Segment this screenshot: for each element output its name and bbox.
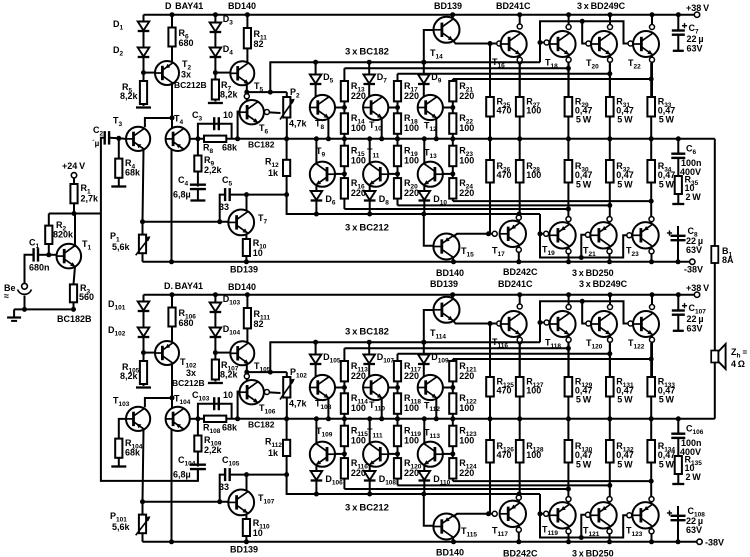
junction driver bus D7 bbox=[367, 60, 372, 65]
resistor R106 bbox=[168, 308, 175, 327]
node emitter line bbox=[140, 219, 145, 224]
pin T22 collector bbox=[650, 25, 655, 30]
wire T107 base line bbox=[143, 501, 229, 503]
resistor R18 bbox=[394, 113, 401, 134]
wire T7 collector bbox=[246, 195, 248, 211]
svg-text:68k: 68k bbox=[125, 448, 141, 458]
node T104 base feed bbox=[170, 395, 175, 400]
wire T21 base riser bbox=[581, 235, 588, 258]
pin T16 base bbox=[497, 41, 502, 46]
resistor R135 bbox=[675, 456, 682, 474]
pin T23 emitter bbox=[649, 217, 654, 222]
pin T16 emitter bbox=[517, 57, 522, 62]
wire R135 bottom bbox=[677, 474, 679, 484]
transistor T107 bbox=[228, 490, 254, 516]
wire R126 column bbox=[489, 419, 491, 514]
wire R111 column bbox=[246, 295, 248, 343]
wire C7 column bbox=[677, 15, 679, 30]
transistor T1 bbox=[57, 244, 82, 269]
diode D2 bbox=[138, 48, 150, 57]
wire R2 bottom bbox=[48, 244, 50, 255]
pin T19 collector bbox=[566, 249, 571, 254]
junction bottom bus D108 bbox=[367, 492, 372, 497]
junction base chain T121 bbox=[579, 535, 584, 540]
junction output line R114 bbox=[342, 416, 347, 421]
wire R35 bottom bbox=[677, 194, 679, 204]
wire R127 column bbox=[519, 343, 521, 419]
wire R13 riser bbox=[343, 68, 345, 113]
ground R105 bbox=[136, 386, 151, 388]
wire T111 base bbox=[388, 453, 397, 455]
transistor T10 bbox=[363, 95, 388, 120]
wire T6 base bbox=[238, 112, 240, 139]
junction R17 R18 bbox=[395, 105, 400, 110]
wire T15 base from bottom bus bbox=[424, 214, 434, 246]
svg-text:470: 470 bbox=[497, 106, 512, 116]
pin T121 collector bbox=[607, 529, 612, 534]
wire T106 emitter to P102 wiper bbox=[269, 391, 280, 394]
junction output line R118 bbox=[395, 416, 400, 421]
svg-text:220: 220 bbox=[351, 188, 366, 198]
wire R25 column bbox=[489, 44, 491, 139]
wire R106 column bbox=[171, 295, 173, 342]
svg-text:100: 100 bbox=[526, 106, 541, 116]
junction ground input bbox=[22, 307, 27, 312]
wire T3 collector line bbox=[145, 118, 172, 127]
transistor T122 bbox=[633, 311, 659, 337]
wire R125 column bbox=[489, 324, 491, 419]
wire +38V top rail bbox=[144, 14, 695, 16]
wire C7 bottom bbox=[677, 35, 679, 51]
pin T117 base bbox=[492, 511, 497, 516]
junction rail T118 bbox=[566, 292, 571, 297]
pin T18 emitter bbox=[566, 57, 571, 62]
resistor R126 bbox=[486, 440, 494, 463]
junction output line R31 bbox=[607, 136, 612, 141]
svg-text:100: 100 bbox=[459, 156, 474, 166]
wire T103 base bbox=[119, 419, 126, 467]
wire T109 emitter to D106 bbox=[315, 465, 317, 471]
terminal input Be bbox=[22, 283, 28, 289]
svg-text:1k: 1k bbox=[268, 448, 279, 458]
transistor T117 bbox=[500, 501, 526, 527]
wire R124 drop bbox=[452, 446, 454, 458]
svg-text:100: 100 bbox=[351, 156, 366, 166]
wire T9 collector riser bbox=[315, 139, 317, 164]
junction driver bus D5 bbox=[313, 60, 318, 65]
svg-text:BD139: BD139 bbox=[230, 545, 258, 555]
wire D103 chain column bbox=[214, 295, 216, 353]
pin T118 emitter bbox=[566, 337, 571, 342]
junction T122 emitter line bbox=[649, 357, 654, 362]
node T105 base bbox=[213, 350, 218, 355]
wire D106 to bottom bus bbox=[315, 481, 317, 495]
transistor T15 bbox=[433, 234, 459, 260]
resistor R114 bbox=[341, 393, 348, 414]
diode D108 bbox=[364, 471, 376, 480]
svg-text:BC182: BC182 bbox=[248, 420, 275, 430]
wire D109 column bbox=[423, 342, 425, 376]
svg-text:5 W: 5 W bbox=[576, 180, 592, 190]
wire T121 collector drop bbox=[609, 526, 611, 542]
potentiometer P102 bbox=[283, 377, 290, 398]
junction T111 base bbox=[395, 451, 400, 456]
capacitor C6 bbox=[671, 152, 685, 154]
diode D104 bbox=[210, 328, 222, 337]
junction R121 R122 bbox=[450, 385, 455, 390]
transistor T103 bbox=[126, 407, 150, 431]
wire R32 column bbox=[609, 139, 611, 219]
svg-text:3 x BD249C: 3 x BD249C bbox=[577, 1, 626, 11]
svg-text:100: 100 bbox=[459, 403, 474, 413]
resistor R15 bbox=[341, 146, 348, 167]
junction bottom bus D6 bbox=[314, 212, 319, 217]
pin T116 base bbox=[497, 321, 502, 326]
svg-text:=: = bbox=[743, 348, 748, 357]
pin T22 emitter bbox=[650, 57, 655, 62]
capacitor C1 bbox=[32, 248, 34, 262]
wire -38V bottom rail bbox=[143, 541, 697, 543]
junction output line T112 emitter bbox=[434, 416, 439, 421]
capacitor C104 bbox=[190, 464, 206, 466]
junction R117 R118 bbox=[395, 385, 400, 390]
wire T13 base bbox=[443, 173, 453, 175]
junction rail R10 bbox=[244, 259, 249, 264]
wire R20 drop bbox=[397, 166, 399, 178]
wire T18 emitter drop bbox=[568, 56, 570, 98]
resistor R110 bbox=[243, 519, 250, 536]
transistor T6 bbox=[240, 100, 264, 124]
wire R121 riser bbox=[452, 359, 454, 394]
diode D101 bbox=[138, 302, 150, 311]
resistor R27 bbox=[516, 97, 524, 117]
pin T20 base bbox=[586, 41, 591, 46]
svg-text:BD241C: BD241C bbox=[498, 279, 533, 289]
wire R113 riser bbox=[343, 348, 345, 393]
wire output rail bbox=[198, 138, 715, 140]
potentiometer P1 bbox=[139, 235, 146, 254]
wire R22 R23 span bbox=[452, 134, 454, 146]
transistor T17 bbox=[500, 221, 526, 247]
wire T18 collector riser bbox=[568, 15, 570, 27]
resistor R118 bbox=[394, 393, 401, 414]
wire R2 column bbox=[48, 214, 50, 226]
pin T119 collector bbox=[566, 529, 571, 534]
pin T120 base bbox=[586, 321, 591, 326]
wire T12 emitter bbox=[435, 119, 437, 139]
junction rail T123 bbox=[649, 539, 654, 544]
capacitor C2 bbox=[103, 131, 105, 145]
wire T113 emitter to D110 bbox=[423, 465, 425, 471]
wire R105 column bbox=[143, 353, 145, 386]
junction bottom bus D8 bbox=[367, 212, 372, 217]
junction rail T20 bbox=[608, 12, 613, 17]
transistor T7 bbox=[228, 210, 254, 236]
pin T121 base bbox=[585, 512, 590, 517]
svg-text:220: 220 bbox=[459, 468, 474, 478]
drive line row2 upper bbox=[453, 480, 651, 482]
pin T17 collector bbox=[516, 247, 521, 252]
potentiometer P2 bbox=[283, 97, 290, 118]
svg-text:0,47: 0,47 bbox=[575, 450, 593, 460]
resistor R4 bbox=[115, 159, 122, 178]
wire R114 R115 span bbox=[343, 414, 345, 426]
wire T10 collector junction bbox=[388, 107, 397, 109]
transistor T21 bbox=[590, 222, 616, 248]
node T1 base bbox=[46, 252, 51, 257]
svg-text:BD242C: BD242C bbox=[503, 549, 538, 557]
pin T123 collector bbox=[649, 529, 654, 534]
junction rail T116 bbox=[517, 292, 522, 297]
terminal +38V bbox=[694, 292, 699, 297]
transistor T12 bbox=[418, 95, 443, 120]
svg-text:63V: 63V bbox=[686, 525, 702, 535]
wire R120 drop bbox=[397, 446, 399, 458]
pin T117 collector bbox=[516, 527, 521, 532]
svg-text:BD140: BD140 bbox=[228, 282, 256, 292]
input jack arc bbox=[18, 290, 32, 295]
wire T1 emitter bbox=[74, 266, 76, 284]
svg-text:-38V: -38V bbox=[705, 538, 724, 548]
resistor R117 bbox=[394, 361, 401, 381]
drive line row1 upper bbox=[344, 347, 568, 349]
potentiometer P101 bbox=[139, 515, 146, 534]
junction output line R27 bbox=[517, 136, 522, 141]
transistor T16 bbox=[501, 31, 527, 57]
transistor T115 bbox=[433, 514, 459, 540]
resistor R6 bbox=[168, 28, 175, 47]
wire to T2 base bbox=[144, 72, 156, 74]
wire C104 to feedback line bbox=[197, 469, 199, 481]
pin T106 emitter bbox=[264, 390, 269, 395]
junction output line R112 bbox=[284, 416, 289, 421]
resistor R24 bbox=[449, 178, 456, 199]
transistor T102 bbox=[155, 341, 179, 365]
svg-text:82: 82 bbox=[254, 319, 264, 329]
svg-text:100: 100 bbox=[404, 403, 419, 413]
capacitor C8 bbox=[671, 235, 686, 237]
wire zobel mid bbox=[677, 438, 679, 456]
wire R1 top bbox=[73, 178, 75, 184]
junction T22 emitter line bbox=[649, 77, 654, 82]
pin T116 collector bbox=[517, 304, 522, 309]
wire R4 column bbox=[118, 138, 120, 186]
svg-text:2,2k: 2,2k bbox=[204, 165, 223, 175]
svg-text:10: 10 bbox=[223, 110, 233, 120]
svg-text:100: 100 bbox=[459, 436, 474, 446]
pin T23 base bbox=[627, 233, 632, 238]
resistor R20 bbox=[394, 178, 401, 199]
svg-text:5 W: 5 W bbox=[576, 460, 592, 470]
svg-text:≈: ≈ bbox=[4, 291, 9, 301]
transistor T8 bbox=[310, 95, 335, 120]
junction T7 collector bbox=[244, 192, 249, 197]
wire R131 column bbox=[609, 343, 611, 419]
pin T123 base bbox=[627, 513, 632, 518]
transistor T3 bbox=[126, 127, 150, 151]
junction output line T10 emitter bbox=[379, 136, 384, 141]
wire base chain riser bbox=[540, 301, 631, 342]
junction output line T111 collector bbox=[367, 416, 372, 421]
wire C8 column bbox=[677, 226, 679, 262]
wire D3 chain column bbox=[214, 15, 216, 73]
ground C4 bbox=[190, 199, 205, 201]
resistor R127 bbox=[516, 377, 524, 397]
svg-text:560: 560 bbox=[79, 292, 94, 302]
wire C108 column bbox=[677, 506, 679, 542]
transistor T121 bbox=[590, 502, 616, 528]
junction base chain T120 bbox=[580, 299, 585, 304]
svg-text:68k: 68k bbox=[222, 423, 238, 433]
wire T17 collector drop bbox=[518, 245, 520, 262]
wire T17 emitter riser bbox=[518, 219, 520, 222]
junction output line T109 collector bbox=[314, 416, 319, 421]
resistor R131 bbox=[606, 377, 614, 397]
svg-text:5 W: 5 W bbox=[659, 180, 675, 190]
resistor R8 bbox=[204, 136, 226, 142]
junction rail T14 bbox=[450, 12, 455, 17]
junction R125 base pulldown bbox=[488, 321, 493, 326]
resistor R25 bbox=[486, 97, 494, 117]
junction T117 emitter bus bbox=[517, 492, 522, 497]
diode D102 bbox=[138, 328, 150, 337]
junction rail T23 bbox=[649, 259, 654, 264]
transistor T109 bbox=[310, 442, 335, 467]
junction output line T8 emitter bbox=[326, 136, 331, 141]
resistor R35 bbox=[675, 176, 682, 194]
svg-text:8,2k: 8,2k bbox=[220, 90, 239, 100]
pin T23 collector bbox=[649, 249, 654, 254]
svg-text:100: 100 bbox=[459, 123, 474, 133]
svg-text:100: 100 bbox=[526, 386, 541, 396]
wire C3 loop bbox=[198, 124, 232, 139]
svg-text:D BAY41: D BAY41 bbox=[165, 1, 203, 11]
junction rail R6 bbox=[170, 12, 175, 17]
junction output line R22 bbox=[450, 136, 455, 141]
transistor T11 bbox=[363, 162, 388, 187]
resistor R26 bbox=[486, 160, 494, 183]
resistor R121 bbox=[449, 361, 456, 381]
wire T11 collector riser bbox=[369, 139, 371, 164]
wire R16 drop bbox=[343, 166, 345, 178]
wire T114 emitter to T116 base bbox=[453, 320, 497, 324]
wire T21 emitter riser bbox=[609, 219, 611, 223]
transistor T114 bbox=[434, 297, 460, 323]
wire C5 to T7 collector bbox=[231, 194, 287, 196]
svg-text:D. BAY41: D. BAY41 bbox=[164, 281, 203, 291]
wire R30 column bbox=[567, 139, 569, 219]
junction T121 emitter line bbox=[607, 483, 612, 488]
wire T113 collector riser bbox=[423, 419, 425, 444]
junction rail C108 bbox=[676, 539, 681, 544]
svg-text:100: 100 bbox=[351, 123, 366, 133]
wire riser to driver bus bbox=[270, 62, 540, 92]
wire T115 collector to rail bbox=[452, 537, 455, 542]
wire R133 column bbox=[650, 343, 652, 419]
svg-text:4,7k: 4,7k bbox=[289, 399, 308, 409]
resistor R34 bbox=[647, 160, 655, 183]
resistor R16 bbox=[341, 178, 348, 199]
wire D5 column bbox=[315, 62, 317, 96]
node T107 collector line bbox=[284, 472, 289, 477]
wire D7 column bbox=[368, 62, 370, 96]
resistor R33 bbox=[647, 97, 655, 117]
wire riser to driver bus bbox=[270, 342, 540, 372]
junction output line zobel bbox=[676, 136, 681, 141]
wire R122 R123 span bbox=[452, 414, 454, 426]
ground R4 bbox=[111, 185, 126, 187]
wire D110 to bottom bus bbox=[423, 481, 425, 495]
transistor T9 bbox=[310, 162, 335, 187]
junction output line R18 bbox=[395, 136, 400, 141]
svg-text:2,2k: 2,2k bbox=[204, 445, 223, 455]
wire speaker feed bbox=[714, 139, 716, 419]
wire T119 emitter riser bbox=[568, 499, 570, 503]
svg-text:5,6k: 5,6k bbox=[112, 522, 131, 532]
pin T119 base bbox=[544, 511, 549, 516]
wire T123 collector drop bbox=[651, 526, 653, 542]
wire T15 collector to rail bbox=[452, 257, 455, 262]
wire base chain riser bbox=[540, 21, 631, 62]
pin T118 collector bbox=[566, 305, 571, 310]
junction rail T4 emitter bbox=[169, 259, 174, 264]
svg-text:0,47: 0,47 bbox=[658, 170, 676, 180]
svg-text:5 W: 5 W bbox=[659, 395, 675, 405]
wire P1 top bbox=[142, 222, 144, 235]
svg-text:3 x BD250: 3 x BD250 bbox=[572, 268, 614, 278]
junction rail T18 bbox=[566, 12, 571, 17]
wire R118 R119 span bbox=[397, 414, 399, 426]
junction rail R11 bbox=[245, 12, 250, 17]
junction T119 base stub bbox=[538, 511, 543, 516]
wire T118 collector riser bbox=[568, 295, 570, 307]
junction T19 emitter line bbox=[566, 207, 571, 212]
capacitor C105 bbox=[224, 468, 226, 481]
svg-text:63V: 63V bbox=[687, 324, 703, 334]
wire T104 collector to node bbox=[190, 418, 198, 420]
wire D101 chain column bbox=[143, 295, 145, 353]
wire to T105 base bbox=[215, 352, 230, 354]
wire T104 base entry bbox=[171, 398, 173, 409]
resistor R7 bbox=[212, 80, 219, 100]
svg-text:22 µ: 22 µ bbox=[687, 34, 704, 44]
wire T117 collector drop bbox=[518, 525, 520, 542]
svg-text:5 W: 5 W bbox=[617, 395, 633, 405]
wire T19 collector drop bbox=[568, 246, 570, 261]
svg-text:4,7k: 4,7k bbox=[289, 119, 308, 129]
wire T10 emitter bbox=[381, 119, 383, 139]
wire R5 column bbox=[143, 73, 145, 106]
wire R31 column bbox=[609, 63, 611, 139]
wire C103 loop bbox=[198, 404, 232, 419]
diode D107 bbox=[363, 355, 375, 364]
resistor R13 bbox=[341, 81, 348, 101]
wire T16 emitter drop bbox=[519, 56, 521, 98]
transistor T23 bbox=[632, 222, 658, 248]
wire T103 emitter down bbox=[143, 430, 144, 502]
transistor T5 bbox=[230, 61, 254, 85]
diode D7 bbox=[363, 75, 375, 84]
wire base chain drop bbox=[540, 494, 629, 538]
wire P101 bottom bbox=[142, 533, 144, 542]
wire D1 chain column bbox=[143, 15, 145, 73]
junction T9 base bbox=[342, 171, 347, 176]
svg-text:8,2k: 8,2k bbox=[220, 370, 239, 380]
wire D10 to bottom bus bbox=[423, 201, 425, 215]
wire T7 emitter R10 bbox=[245, 234, 247, 262]
node T5 emitter bbox=[244, 90, 249, 95]
transistor T2 bbox=[155, 61, 179, 85]
